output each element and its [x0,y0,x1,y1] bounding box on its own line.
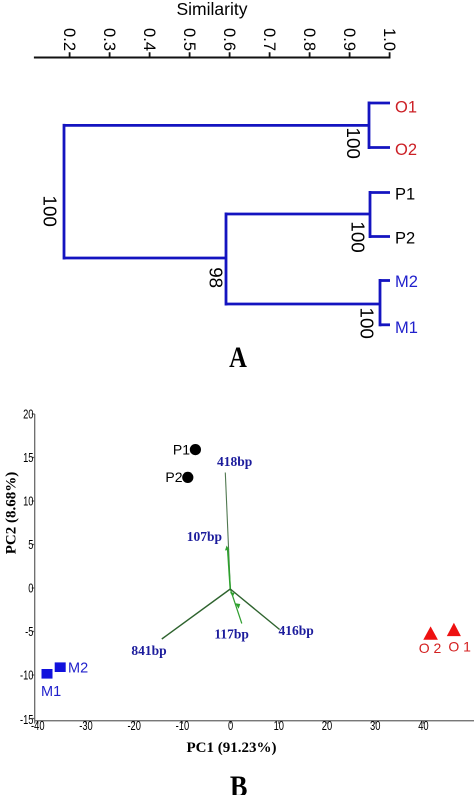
svg-text:0.8: 0.8 [300,28,318,51]
107bp arrowhead [225,546,229,551]
small vertex arrow [230,592,235,597]
svg-text:O1: O1 [395,99,417,117]
svg-text:-10: -10 [20,669,34,683]
point M2 square [55,662,66,672]
svg-text:20: 20 [23,408,33,422]
biplot ray 117bp [230,589,242,624]
svg-text:100: 100 [357,308,378,339]
svg-text:0.7: 0.7 [260,28,278,51]
svg-text:0.6: 0.6 [220,28,238,51]
P cluster vertical [369,191,372,238]
svg-text:15: 15 [23,452,33,466]
svg-text:PC2 (8.68%): PC2 (8.68%) [4,472,20,555]
biplot ray 841bp [162,589,231,639]
svg-text:-20: -20 [127,720,141,734]
point P2 [182,472,193,483]
dendrogram tree [64,102,390,327]
svg-text:418bp: 418bp [217,454,252,469]
root to O horizontal [64,124,369,127]
svg-text:-40: -40 [31,720,45,734]
svg-text:100: 100 [348,221,369,252]
P2 branch [370,235,390,238]
M1 branch [380,323,390,326]
point P1 [190,444,201,455]
svg-text:20: 20 [322,720,332,734]
svg-text:10: 10 [274,720,284,734]
point O1 triangle [447,623,461,636]
O cluster vertical [368,102,371,150]
svg-text:-5: -5 [25,626,33,640]
svg-text:0.4: 0.4 [140,28,158,51]
svg-text:0: 0 [28,582,33,596]
svg-text:-10: -10 [176,720,190,734]
biplot ray 107bp shaft [228,550,231,590]
P1 branch [370,191,390,194]
98 node vertical [225,213,228,306]
point M1 square [42,669,53,679]
svg-text:B: B [230,770,248,795]
M2 branch [380,279,390,282]
svg-text:0.3: 0.3 [100,28,118,51]
svg-text:O2: O2 [395,141,417,159]
svg-text:A: A [229,341,247,374]
svg-text:P1: P1 [173,441,190,457]
117bp arrowhead [235,603,240,609]
svg-text:-30: -30 [79,720,93,734]
svg-text:M2: M2 [395,273,418,291]
svg-text:40: 40 [418,720,428,734]
root to 98 node horizontal [64,257,226,260]
O1 branch [369,102,390,105]
panel B y axis line [34,414,36,724]
svg-text:30: 30 [370,720,380,734]
svg-text:M1: M1 [41,684,61,700]
svg-text:P2: P2 [165,469,182,485]
x ticks [38,721,424,724]
svg-text:M1: M1 [395,319,418,337]
svg-text:1.0: 1.0 [380,28,398,51]
svg-text:PC1 (91.23%): PC1 (91.23%) [187,740,277,756]
svg-text:0.5: 0.5 [180,28,198,51]
98 to M horizontal [226,303,380,306]
svg-text:0.9: 0.9 [340,28,358,51]
svg-text:100: 100 [40,196,61,227]
svg-text:0.2: 0.2 [60,28,78,51]
svg-text:0: 0 [228,720,233,734]
point O2 triangle [423,626,438,639]
axis ticks [70,52,390,57]
svg-text:107bp: 107bp [187,529,222,544]
panel B x axis line [35,720,474,722]
svg-text:5: 5 [28,539,33,553]
svg-text:100: 100 [343,128,364,159]
svg-text:P2: P2 [395,230,415,248]
biplot ray 416bp [230,589,279,630]
svg-text:O 2: O 2 [419,640,442,656]
svg-text:841bp: 841bp [131,643,166,658]
svg-text:M2: M2 [68,661,88,677]
svg-text:Similarity: Similarity [177,0,248,19]
svg-text:416bp: 416bp [279,623,314,638]
svg-text:P1: P1 [395,186,415,204]
root vertical [63,124,66,260]
M cluster vertical [379,279,382,326]
svg-text:117bp: 117bp [214,627,249,642]
panel A similarity axis line [34,57,391,59]
svg-text:O 1: O 1 [448,639,471,655]
svg-text:10: 10 [23,495,33,509]
biplot ray 418bp [225,473,230,590]
98 to P horizontal [226,213,370,216]
O2 branch [369,146,390,149]
svg-text:98: 98 [206,267,227,288]
y ticks [32,414,35,719]
